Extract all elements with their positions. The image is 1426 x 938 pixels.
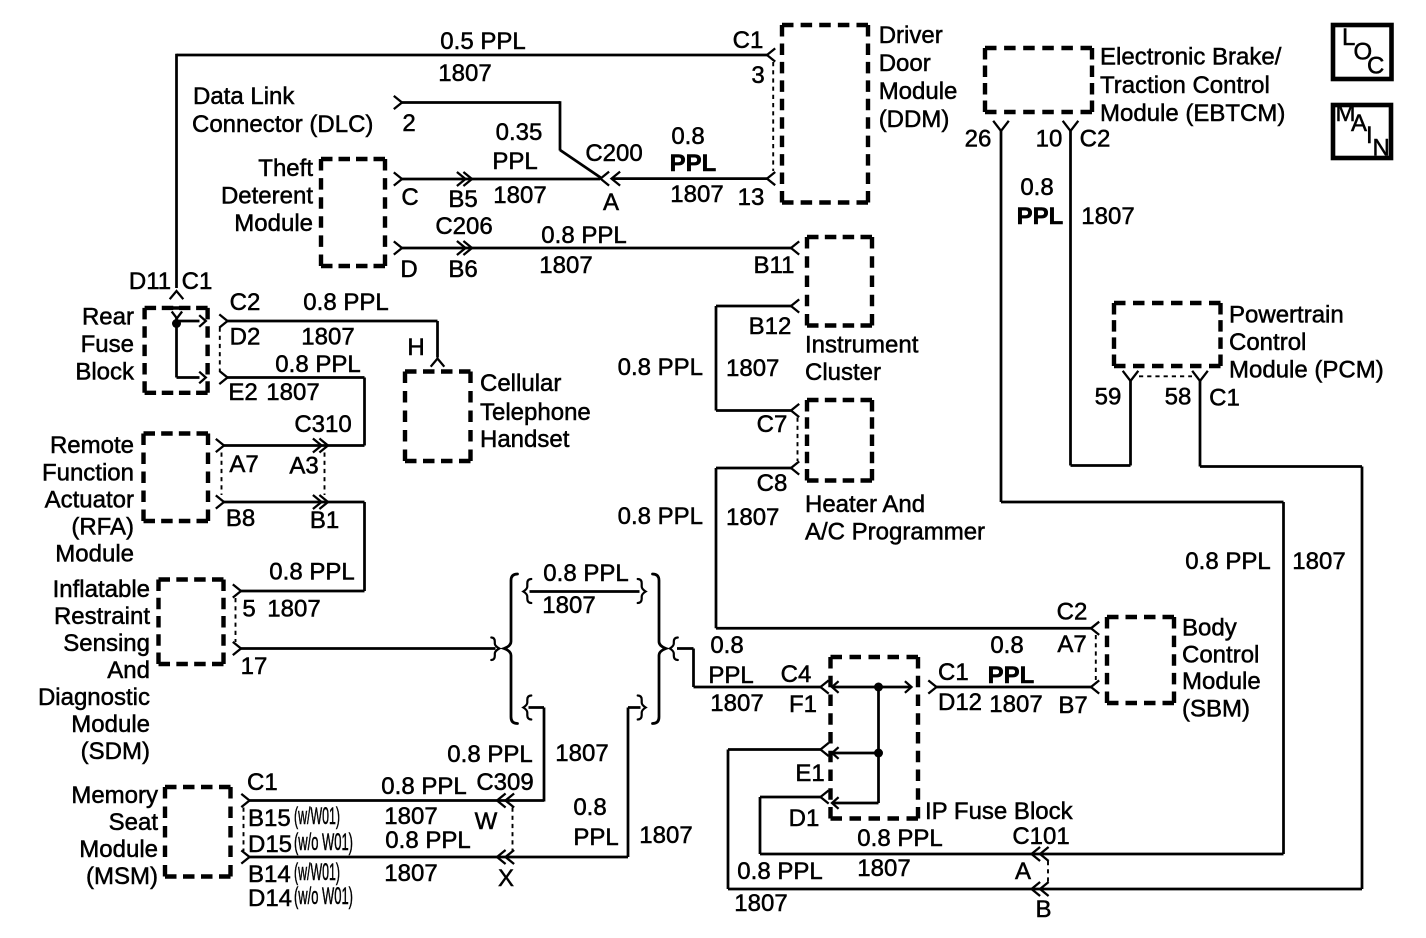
svg-text:10: 10	[1036, 126, 1063, 153]
label 1807	[726, 355, 779, 382]
svg-text:C309: C309	[476, 769, 533, 796]
label PPL	[708, 662, 753, 689]
svg-text:Powertrain: Powertrain	[1229, 302, 1344, 329]
svg-text:E2: E2	[228, 379, 257, 406]
label C310	[294, 411, 351, 438]
svg-text:(w/W01): (w/W01)	[294, 803, 340, 830]
label 0.8 PPL	[381, 773, 466, 800]
connector dashed link A7-B7	[1095, 635, 1097, 680]
label 17	[241, 653, 268, 680]
pin IC B12 chevron	[791, 299, 799, 312]
label Heater And A/C Programmer	[805, 491, 985, 546]
pin IP C4/F1 chevron	[821, 680, 829, 693]
svg-text:C4: C4	[781, 661, 812, 688]
svg-text:0.8: 0.8	[1020, 174, 1053, 201]
connector C206 label	[435, 213, 492, 240]
label 1807	[734, 890, 787, 917]
pin E2 chevron	[219, 371, 227, 384]
label D1	[789, 805, 820, 832]
connector dashed link A7-B8	[221, 453, 223, 496]
label 1807	[555, 740, 608, 767]
brace big left	[504, 574, 518, 724]
svg-text:0.8 PPL: 0.8 PPL	[543, 560, 628, 587]
pin PCM 58/C1 chevron (up)	[1192, 371, 1208, 381]
label D11	[129, 268, 171, 295]
label Theft Deterent Module	[221, 155, 313, 237]
label 0.8	[671, 123, 704, 150]
svg-text:Block: Block	[75, 359, 135, 386]
svg-text:1807: 1807	[734, 890, 787, 917]
label Inflatable Restraint Sensing And Diagnostic Module (SDM)	[38, 576, 150, 765]
svg-text:PPL: PPL	[988, 662, 1035, 689]
junction dot IP mid	[874, 749, 883, 758]
label 1807	[726, 504, 779, 531]
brace small left after big right brace	[670, 638, 678, 661]
svg-text:N: N	[1373, 135, 1390, 162]
svg-text:PPL: PPL	[708, 662, 753, 689]
connector dashed link C7-C8	[797, 418, 799, 462]
svg-text:(SBM): (SBM)	[1182, 696, 1250, 723]
svg-text:Connector (DLC): Connector (DLC)	[192, 111, 373, 138]
module Body Control Module box	[1107, 617, 1174, 703]
svg-text:Deterent: Deterent	[221, 183, 313, 210]
wire EBTCM 10 to PCM 59	[1071, 131, 1131, 466]
label C101	[1012, 823, 1069, 850]
label 0.35	[496, 119, 543, 146]
label C1	[938, 659, 969, 686]
connector X inline chevrons	[497, 850, 514, 864]
connector dashed link 5-17	[235, 598, 237, 642]
wire SDM 17 to brace	[241, 647, 496, 650]
arrow IP to D12 (right)	[905, 681, 912, 693]
svg-text:And: And	[107, 657, 150, 684]
svg-text:A3: A3	[289, 453, 318, 480]
svg-text:Cluster: Cluster	[805, 359, 881, 386]
label C2	[1057, 599, 1088, 626]
arrow to C2/D2 pin	[199, 315, 206, 327]
svg-text:Module: Module	[71, 711, 150, 738]
module Heater A/C Programmer box	[807, 400, 872, 481]
arrow IP F1 (left)	[832, 681, 839, 693]
svg-text:A/C Programmer: A/C Programmer	[805, 519, 985, 546]
label B11	[754, 252, 795, 279]
svg-text:Body: Body	[1182, 615, 1237, 642]
svg-text:58: 58	[1165, 384, 1192, 411]
wire MSM C1B15 to W vertical	[250, 799, 545, 802]
svg-text:(RFA): (RFA)	[71, 514, 134, 541]
junction dot rear fuse block	[172, 319, 181, 328]
module EBTCM box	[985, 48, 1092, 112]
svg-text:(MSM): (MSM)	[86, 863, 158, 890]
label B5	[448, 186, 477, 213]
wire EBTCM 26 to C101 A	[1001, 131, 1284, 854]
wire E2 to C310	[228, 378, 365, 446]
wire C2D2 to H	[228, 321, 438, 358]
svg-text:Diagnostic: Diagnostic	[38, 684, 150, 711]
svg-text:Electronic Brake/: Electronic Brake/	[1100, 44, 1282, 71]
label E2	[228, 379, 257, 406]
svg-text:3: 3	[751, 62, 764, 89]
label A	[1015, 858, 1031, 885]
label A7	[1057, 631, 1086, 658]
svg-text:Fuse: Fuse	[81, 331, 134, 358]
label 0.5 PPL	[440, 28, 525, 55]
legend MAIN box	[1333, 100, 1391, 162]
label 1807	[539, 252, 592, 279]
svg-text:1807: 1807	[384, 860, 437, 887]
label 0.8 PPL	[543, 560, 628, 587]
pin DLC 2 chevron	[394, 96, 402, 109]
svg-text:1807: 1807	[542, 592, 595, 619]
label 58	[1165, 384, 1192, 411]
connector C101 B inline chevrons	[1032, 882, 1049, 896]
svg-text:0.8 PPL: 0.8 PPL	[618, 503, 703, 530]
label Instrument Cluster	[805, 332, 919, 387]
wire IP D1 to C101 A	[760, 797, 1040, 854]
svg-text:0.8 PPL: 0.8 PPL	[541, 222, 626, 249]
label Data Link Connector (DLC)	[192, 83, 373, 138]
label C	[401, 184, 418, 211]
label PPL bold	[988, 662, 1035, 689]
label Memory Seat Module (MSM)	[71, 782, 158, 890]
svg-text:D2: D2	[230, 324, 261, 351]
pin EBTCM 26 chevron (up)	[993, 121, 1009, 131]
svg-text:H: H	[407, 334, 424, 361]
label B14	[248, 861, 291, 888]
label C1	[1209, 385, 1240, 412]
svg-text:PPL: PPL	[670, 150, 717, 177]
svg-text:Memory: Memory	[71, 782, 158, 809]
module IP Fuse Block box	[831, 657, 919, 819]
svg-text:PPL: PPL	[492, 148, 537, 175]
label 0.8 PPL	[385, 827, 470, 854]
label 1807	[493, 182, 546, 209]
label B1	[310, 507, 339, 534]
pin Theft C chevron	[394, 172, 402, 185]
label PPL bold	[1017, 203, 1064, 230]
svg-text:C: C	[1367, 53, 1384, 80]
label PPL	[492, 148, 537, 175]
wire D11C1 connector bar-V inside box	[167, 308, 186, 318]
svg-text:D: D	[400, 256, 417, 283]
svg-text:C1: C1	[247, 769, 278, 796]
label 1807	[710, 690, 763, 717]
svg-text:B14: B14	[248, 861, 291, 888]
svg-text:C7: C7	[757, 411, 788, 438]
label 59	[1095, 384, 1122, 411]
svg-text:13: 13	[738, 184, 765, 211]
svg-text:Actuator: Actuator	[45, 487, 134, 514]
wire SDM 5 to vertical	[241, 590, 365, 593]
svg-text:(w/o W01): (w/o W01)	[294, 883, 353, 910]
pin IP C1/D12 chevron	[928, 680, 936, 693]
svg-text:1807: 1807	[301, 324, 354, 351]
svg-text:0.8: 0.8	[573, 794, 606, 821]
label C200	[585, 140, 642, 167]
label 0.8 PPL	[303, 289, 388, 316]
pin RFA A7 chevron	[216, 439, 224, 452]
brace small left inner top	[523, 579, 531, 603]
svg-text:C2: C2	[230, 289, 261, 316]
label C2	[230, 289, 261, 316]
svg-text:0.8 PPL: 0.8 PPL	[737, 858, 822, 885]
label 0.8 PPL	[737, 858, 822, 885]
label B	[1035, 896, 1051, 923]
junction dot IP top	[874, 683, 883, 692]
svg-text:B1: B1	[310, 507, 339, 534]
label 5	[242, 596, 255, 623]
label 0.8	[990, 632, 1023, 659]
svg-text:F1: F1	[789, 691, 817, 718]
label 1807	[438, 60, 491, 87]
svg-text:Module: Module	[79, 836, 158, 863]
svg-text:Function: Function	[42, 460, 134, 487]
label C2	[1080, 126, 1111, 153]
label 1807	[542, 592, 595, 619]
label Electronic Brake/ Traction Control Module (EBTCM)	[1100, 44, 1285, 128]
wire rear fuse block internal bus	[177, 317, 200, 378]
label D14	[248, 885, 292, 912]
label 0.8 PPL	[541, 222, 626, 249]
label B15	[248, 805, 291, 832]
label A	[603, 189, 619, 216]
label 0.8 PPL	[618, 354, 703, 381]
svg-text:(w/W01): (w/W01)	[294, 859, 340, 886]
label W	[475, 808, 498, 835]
svg-text:26: 26	[965, 126, 992, 153]
brace small right at wire 17 end	[491, 638, 499, 661]
label C7	[757, 411, 788, 438]
wire B12 to C7	[716, 306, 791, 411]
pin MSM C1/B15 chevron	[241, 794, 249, 807]
svg-text:A7: A7	[1057, 631, 1086, 658]
svg-text:1807: 1807	[710, 690, 763, 717]
pin IP E1 chevron	[821, 743, 829, 756]
svg-text:B11: B11	[754, 252, 795, 279]
svg-text:C2: C2	[1080, 126, 1111, 153]
label B12	[749, 313, 792, 340]
svg-text:1807: 1807	[726, 355, 779, 382]
svg-text:0.8: 0.8	[710, 632, 743, 659]
wire C8 to SBM C2/A7	[716, 468, 1091, 628]
svg-text:C200: C200	[585, 140, 642, 167]
label C1	[182, 268, 213, 295]
svg-text:Module: Module	[55, 541, 134, 568]
label 13	[738, 184, 765, 211]
label IP Fuse Block	[925, 798, 1074, 825]
connector B6 inline chevrons	[457, 241, 472, 255]
legend LOC box	[1333, 24, 1392, 80]
svg-text:PPL: PPL	[573, 824, 618, 851]
label 1807	[670, 181, 723, 208]
svg-text:Control: Control	[1182, 642, 1259, 669]
brace small right inner bottom	[638, 696, 646, 720]
svg-text:Rear: Rear	[82, 304, 134, 331]
svg-text:0.8: 0.8	[671, 123, 704, 150]
connector B5 inline chevrons	[457, 172, 472, 186]
label 0.8 PPL	[618, 503, 703, 530]
label 1807	[989, 691, 1042, 718]
label Cellular Telephone Handset	[480, 370, 591, 453]
wire PCM 58 to B	[1040, 381, 1362, 889]
svg-text:PPL: PPL	[1017, 203, 1064, 230]
wire 0.5 PPL from rear fuse block to DDM C1-3	[177, 54, 768, 288]
label PPL bold	[670, 150, 717, 177]
svg-text:1807: 1807	[989, 691, 1042, 718]
label C4	[781, 661, 812, 688]
svg-text:1807: 1807	[493, 182, 546, 209]
connector C309/W inline chevrons	[497, 794, 514, 808]
svg-text:1807: 1807	[266, 379, 319, 406]
label 1807	[384, 803, 437, 830]
svg-text:D1: D1	[789, 805, 820, 832]
connector dashed link C1/3 to 13	[772, 62, 774, 171]
svg-text:IP Fuse Block: IP Fuse Block	[925, 798, 1074, 825]
wire option top	[530, 590, 640, 593]
wire option bottom-right to X	[628, 708, 641, 858]
svg-text:Telephone: Telephone	[480, 399, 591, 426]
label 1807	[266, 379, 319, 406]
svg-text:0.8 PPL: 0.8 PPL	[275, 351, 360, 378]
module PCM box	[1114, 303, 1221, 366]
wire IP D12 to SBM B7	[937, 686, 1092, 689]
svg-text:1807: 1807	[555, 740, 608, 767]
svg-text:Handset: Handset	[480, 426, 570, 453]
label B7	[1058, 692, 1087, 719]
label 0.8 PPL	[1185, 548, 1270, 575]
module Cellular Telephone Handset box	[405, 372, 471, 462]
label D15	[248, 831, 292, 858]
brace small right inner top	[638, 579, 646, 603]
pin Theft D chevron	[394, 241, 402, 254]
svg-text:D14: D14	[248, 885, 292, 912]
svg-text:B8: B8	[226, 505, 255, 532]
brace big right	[653, 574, 667, 724]
svg-text:59: 59	[1095, 384, 1122, 411]
svg-text:0.8: 0.8	[990, 632, 1023, 659]
pin IP D1 chevron	[821, 790, 829, 803]
svg-text:Instrument: Instrument	[805, 332, 919, 359]
module Instrument Cluster box	[807, 237, 872, 326]
label B8	[226, 505, 255, 532]
svg-text:1807: 1807	[267, 596, 320, 623]
svg-text:Module: Module	[234, 210, 313, 237]
pin MSM D15/B14 chevron	[241, 850, 249, 863]
label PPL	[573, 824, 618, 851]
wire IP E1 to B	[728, 750, 1040, 890]
svg-text:A7: A7	[229, 451, 258, 478]
pin SDM 17 chevron	[233, 642, 241, 655]
svg-text:0.35: 0.35	[496, 119, 543, 146]
module Driver Door Module box	[782, 25, 868, 203]
svg-text:Remote: Remote	[50, 432, 134, 459]
label 0.8 PPL	[447, 741, 532, 768]
label 1807	[1292, 548, 1345, 575]
svg-text:C8: C8	[757, 470, 788, 497]
svg-text:C310: C310	[294, 411, 351, 438]
svg-text:Seat: Seat	[109, 809, 159, 836]
wire IP internal bus	[832, 687, 912, 803]
svg-text:5: 5	[242, 596, 255, 623]
module Inflatable Restraint SDM box	[159, 580, 224, 665]
label 0.8 PPL	[275, 351, 360, 378]
connector dashed link 59-58	[1139, 375, 1192, 377]
svg-text:Module: Module	[1182, 668, 1261, 695]
svg-text:0.8 PPL: 0.8 PPL	[303, 289, 388, 316]
pin EBTCM 10/C2 chevron (up)	[1063, 121, 1079, 131]
label C309	[476, 769, 533, 796]
svg-text:Inflatable: Inflatable	[53, 576, 150, 603]
svg-text:B5: B5	[448, 186, 477, 213]
svg-text:X: X	[498, 865, 514, 892]
svg-text:D15: D15	[248, 831, 292, 858]
svg-text:1807: 1807	[639, 822, 692, 849]
label F1	[789, 691, 817, 718]
svg-text:B12: B12	[749, 313, 792, 340]
label H	[407, 334, 424, 361]
svg-text:Door: Door	[879, 50, 931, 77]
module Theft Deterent Module box	[321, 159, 385, 266]
svg-text:D12: D12	[938, 689, 982, 716]
connector dashed link A-B	[1047, 861, 1049, 884]
module Memory Seat Module box	[165, 787, 231, 877]
connector dashed link A3-B1	[324, 453, 326, 496]
svg-text:A: A	[1015, 858, 1031, 885]
svg-text:Control: Control	[1229, 329, 1306, 356]
module Rear Fuse Block box	[145, 308, 208, 393]
pin IC B11 chevron	[791, 241, 799, 254]
pin DDM C1-3 chevron	[767, 48, 775, 61]
pin SBM C2/A7 chevron	[1091, 622, 1099, 635]
label 1807	[857, 855, 910, 882]
wire A7 to C310	[224, 444, 365, 447]
svg-text:Theft: Theft	[258, 155, 313, 182]
label 2	[402, 110, 415, 137]
svg-text:1807: 1807	[1081, 203, 1134, 230]
wire C200 to DDM 13	[612, 177, 768, 180]
connector C101 A inline chevrons	[1032, 847, 1049, 861]
label 1807	[1081, 203, 1134, 230]
label E1	[795, 760, 824, 787]
connector C310/A3 inline chevrons	[313, 439, 328, 453]
svg-text:C101: C101	[1012, 823, 1069, 850]
label Rear Fuse Block	[75, 304, 135, 386]
svg-text:B6: B6	[448, 256, 477, 283]
wire Theft D to instrument cluster B11	[402, 247, 791, 250]
svg-text:2: 2	[402, 110, 415, 137]
svg-text:Module: Module	[879, 78, 958, 105]
connector C200 splice chevrons	[601, 172, 621, 186]
svg-text:A: A	[603, 189, 619, 216]
label 3	[751, 62, 764, 89]
svg-text:C1: C1	[733, 27, 764, 54]
svg-text:C1: C1	[1209, 385, 1240, 412]
svg-text:(DDM): (DDM)	[879, 106, 950, 133]
pin Heater C7 chevron	[791, 404, 799, 417]
connector B1 inline chevrons	[313, 495, 328, 509]
label A7	[229, 451, 258, 478]
svg-text:0.8 PPL: 0.8 PPL	[381, 773, 466, 800]
svg-text:Module (PCM): Module (PCM)	[1229, 357, 1384, 384]
brace small left inner bottom	[523, 696, 531, 720]
label C1	[247, 769, 278, 796]
svg-text:1807: 1807	[857, 855, 910, 882]
label Body Control Module (SBM)	[1182, 615, 1261, 723]
pin PCM 59 chevron (up)	[1123, 371, 1139, 381]
connector dashed link W-X	[512, 808, 514, 852]
svg-text:C206: C206	[435, 213, 492, 240]
label D12	[938, 689, 982, 716]
